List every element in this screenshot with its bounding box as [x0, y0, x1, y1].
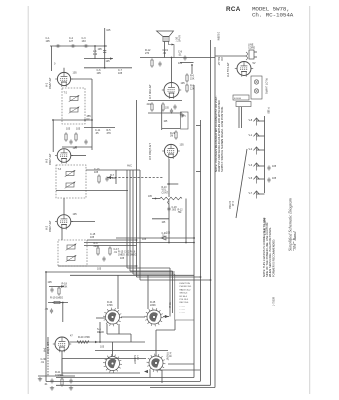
capacitor C-31 — [50, 378, 53, 383]
label C-21 — [162, 233, 168, 238]
junction T-2 right — [84, 119, 86, 121]
label 105 vol low — [162, 222, 167, 224]
wire bottom-left bus — [38, 375, 75, 377]
svg-text:6SL-GT: 6SL-GT — [217, 57, 220, 66]
label pilot lamps — [265, 78, 268, 94]
label V6 plate volts — [70, 335, 73, 338]
wire wafer S-1A feed — [117, 275, 119, 309]
capacitor C-25 — [50, 287, 53, 292]
label C-11 — [95, 129, 101, 135]
svg-text:V-5: V-5 — [249, 177, 253, 180]
svg-text:105: 105 — [48, 281, 53, 284]
label T-2 — [64, 92, 68, 95]
label C-2 127 — [69, 37, 74, 43]
label 6SL-GT — [217, 57, 223, 66]
wire S-1A bracket drop — [130, 334, 132, 342]
capacitor C-14a — [105, 176, 108, 181]
capacitor C-19 — [158, 61, 161, 66]
svg-text:6SK7-GT: 6SK7-GT — [48, 220, 52, 232]
wire right bus 2 — [200, 120, 202, 382]
capacitor C-27 — [267, 165, 270, 170]
svg-text:105: 105 — [120, 257, 125, 260]
junction divider — [62, 302, 64, 304]
svg-text:RADIO 45-2: RADIO 45-2 — [180, 288, 192, 291]
label tube V-4 rect — [226, 62, 230, 77]
label bus values — [118, 251, 137, 257]
inductor T-2 secondary — [69, 107, 80, 114]
wire grid cap lead — [47, 337, 49, 344]
svg-text:.05: .05 — [95, 132, 99, 135]
wire heater tap 3 — [257, 165, 265, 167]
wire B+ bus short — [84, 245, 137, 247]
wire speaker lead 1 — [164, 42, 166, 58]
svg-text:"SW" Band: "SW" Band — [292, 231, 297, 251]
switch wafer S-2B front — [147, 354, 166, 373]
svg-text:V-4 5Y3-GT: V-4 5Y3-GT — [226, 62, 230, 77]
svg-text:470K: 470K — [107, 304, 113, 307]
terminal box function table — [175, 274, 194, 320]
label C-19 — [163, 49, 169, 55]
svg-text:105: 105 — [90, 236, 95, 239]
label R-22 — [170, 133, 176, 138]
wire osc bus — [180, 62, 194, 64]
wire AVC stub — [115, 170, 117, 184]
wire pot left lead — [152, 198, 160, 200]
label PH jack — [182, 115, 186, 118]
wire output screen — [140, 57, 215, 59]
label tube V-1 designator — [45, 82, 49, 87]
wire left B- bus — [45, 272, 47, 382]
wire T-2 tap — [53, 119, 92, 121]
svg-text:9-720A: 9-720A — [228, 201, 231, 209]
wire B+ bus upper — [84, 242, 194, 244]
capacitor C-20 — [173, 104, 176, 109]
wire loop 5 horizontal — [140, 279, 211, 281]
capacitor C-24 — [170, 108, 173, 113]
svg-text:AVC: AVC — [127, 165, 132, 168]
junction det bus — [136, 239, 138, 241]
wire V3 plate lead — [71, 155, 86, 157]
wire W4 pin drop 1 — [149, 370, 151, 378]
svg-text:10MEG: 10MEG — [55, 374, 64, 377]
svg-text:127: 127 — [69, 40, 74, 43]
label J-75039 — [273, 296, 276, 306]
ground output cathode — [180, 113, 184, 117]
svg-text:105: 105 — [76, 128, 81, 131]
svg-text:105: 105 — [97, 268, 102, 271]
ground bottom-left 1 — [38, 377, 42, 381]
label C-17 — [114, 248, 120, 254]
label R-12 pot — [178, 210, 184, 215]
svg-text:105: 105 — [106, 29, 111, 32]
svg-text:.02: .02 — [163, 52, 167, 55]
wire det bottom — [58, 265, 137, 267]
label speaker — [176, 35, 182, 42]
label 105 pot — [148, 196, 153, 198]
label mid label — [142, 238, 147, 241]
label R-24 — [107, 301, 113, 307]
label R-18 — [62, 283, 68, 289]
svg-text:105: 105 — [73, 147, 78, 150]
svg-text:FRONT: FRONT — [166, 352, 169, 361]
transformer T-1 box — [233, 95, 249, 100]
wire V7 plate stub — [171, 58, 173, 83]
svg-text:P-188: P-188 — [267, 107, 270, 114]
label dial lamps — [264, 218, 267, 235]
wire heater tap 4 — [257, 178, 265, 180]
svg-text:105: 105 — [118, 72, 123, 75]
svg-text:1M: 1M — [170, 136, 173, 138]
transformer T-3 dashed can — [56, 165, 86, 198]
svg-text:1MEG .05 2MEG: 1MEG .05 2MEG — [118, 253, 137, 256]
label R-12 — [145, 49, 151, 55]
svg-text:SUPPLY. SWITCH SHOWN IN MAX. C: SUPPLY. SWITCH SHOWN IN MAX. CCW POSITIO… — [220, 106, 224, 172]
wire V3 grid side lead — [52, 120, 54, 152]
wire AVC dashed feed — [107, 177, 163, 179]
label 105 c — [164, 121, 169, 123]
wire loop 3 vertical — [132, 170, 134, 274]
junction b+ 1 — [193, 242, 195, 244]
junction top mid — [104, 67, 106, 69]
label C-3 133 — [82, 37, 87, 43]
label C-28 — [272, 177, 277, 180]
wire bottom loop w4a — [168, 363, 194, 365]
transformer T-4 dashed can — [58, 240, 87, 266]
label function table — [180, 283, 193, 314]
wire bottom loop 2 — [46, 381, 200, 383]
capacitor C-1 — [55, 44, 60, 47]
wire loop 2 horizontal — [130, 270, 173, 272]
label R-13 — [147, 103, 152, 106]
svg-text:220K: 220K — [150, 304, 156, 307]
label T-3 — [58, 168, 62, 171]
switch contact heater V-8 — [254, 118, 260, 126]
junction b+ 3 — [185, 242, 187, 244]
inductor T-3 primary — [65, 170, 76, 177]
junction screen — [171, 57, 173, 59]
junction antenna bus — [94, 45, 96, 47]
svg-text:C-18: C-18 — [172, 207, 178, 209]
label V4 fil volts — [253, 62, 256, 65]
label R-20 — [78, 336, 90, 339]
inductor T-4 secondary — [66, 255, 77, 262]
note switch positions — [214, 96, 224, 172]
label C-24 — [165, 108, 170, 110]
svg-text:V-7 6K6-GT: V-7 6K6-GT — [148, 84, 152, 99]
wire right bus 3 — [210, 40, 212, 385]
svg-text:105: 105 — [272, 165, 277, 168]
terminal box PH-1 — [181, 112, 189, 129]
svg-text:105: 105 — [164, 121, 169, 123]
label 455KC — [87, 115, 92, 121]
junction T-2 right v — [91, 119, 93, 121]
wire bus2 tick a — [196, 125, 201, 127]
wire det link — [116, 237, 140, 239]
svg-text:CONT.: CONT. — [162, 192, 169, 194]
junction loop5 — [210, 279, 212, 281]
wire V5 coupling bottom — [162, 128, 180, 130]
wire deck bus — [95, 350, 168, 352]
wire heater lead 1 — [238, 107, 240, 128]
wire speaker lead 2 — [169, 42, 175, 58]
wire top mid bus — [84, 67, 132, 69]
wire heater tap 2 — [257, 149, 265, 151]
wire V2 plate lead — [71, 221, 95, 223]
label V2 plate volts — [73, 213, 78, 216]
wire arrowhead RF feed — [110, 57, 113, 59]
svg-text:5V: 5V — [253, 62, 256, 65]
junction T-2 left — [52, 119, 54, 121]
wire S-1A left lead — [96, 317, 105, 319]
capacitor C-2 — [70, 44, 75, 47]
svg-text:6SK7-GT: 6SK7-GT — [48, 153, 52, 165]
wire S-1A pin drop 2 — [118, 324, 120, 334]
label tube V-2 type — [48, 220, 52, 232]
switch wafer S-1A rear — [103, 308, 122, 327]
label PH-1 — [169, 302, 172, 308]
potentiometer R-11 — [160, 197, 182, 200]
svg-text:2-188M: 2-188M — [217, 32, 220, 40]
label tube V-3 designator — [45, 158, 49, 163]
wire grid dashed — [47, 344, 49, 376]
junction cathode return — [75, 146, 77, 148]
wire arrowhead AVC feed — [107, 176, 111, 179]
label V7 plate volts — [181, 82, 186, 85]
label RCA logo — [226, 6, 241, 13]
svg-text:105: 105 — [165, 108, 170, 110]
wire bottom loop 4 — [150, 387, 215, 389]
svg-text:REAR: REAR — [97, 331, 104, 334]
label R-4 105 — [76, 128, 81, 131]
label 105 out — [178, 62, 183, 65]
svg-text:CORD: CORD — [248, 46, 255, 49]
svg-text:133: 133 — [82, 40, 87, 43]
wire bottom loop w4b — [156, 369, 200, 371]
label R-7 — [110, 174, 116, 180]
pilot lamp I-1 — [254, 80, 258, 84]
wire loop 4 horizontal — [137, 276, 201, 278]
choke box — [236, 102, 251, 107]
wire loop antenna lead — [104, 28, 106, 68]
svg-text:105: 105 — [180, 144, 185, 147]
wire bus B — [70, 274, 194, 276]
label 105 det — [120, 257, 125, 260]
label C-4 — [98, 48, 103, 51]
wire loop 1 drop — [169, 268, 171, 317]
resistor R-4 — [75, 132, 77, 142]
wire plate line — [69, 341, 145, 343]
svg-text:PH-1: PH-1 — [169, 302, 172, 308]
wire antenna bus — [50, 45, 107, 47]
label C-26 — [45, 308, 49, 311]
wire plate riser — [99, 322, 101, 342]
resistor R-10 — [109, 246, 111, 256]
wire arrow het — [161, 236, 166, 240]
label 105 het — [166, 232, 171, 235]
label deck label — [100, 346, 105, 349]
page border right — [309, 6, 311, 394]
capacitor C-17 — [102, 256, 105, 261]
svg-text:FUNCTION: FUNCTION — [180, 283, 191, 285]
label heater V-5 — [249, 177, 253, 180]
svg-text:6SA7-GT: 6SA7-GT — [48, 77, 52, 89]
wire S-1A bracket — [107, 333, 131, 335]
wire bottom loop 3 — [56, 384, 211, 386]
resistor R-13 — [151, 102, 153, 112]
junction het — [193, 237, 195, 239]
wire V1 top stub — [63, 68, 65, 73]
svg-text:47K: 47K — [107, 132, 112, 135]
label V3 plate volts — [73, 147, 78, 150]
label tube V-6 type — [46, 342, 50, 354]
speaker and output transformer T-5 — [157, 31, 174, 42]
tube V-3 IF amplifier — [55, 149, 73, 164]
junction vol top — [168, 183, 170, 185]
svg-text:.01: .01 — [41, 361, 45, 364]
svg-text:160: 160 — [93, 53, 98, 56]
svg-text:105: 105 — [66, 128, 71, 131]
label line cord — [248, 44, 255, 50]
svg-text:105: 105 — [94, 171, 99, 174]
label C-13 105 — [94, 168, 100, 174]
wire bottom loop 1 — [56, 377, 194, 379]
label tube V-1 type — [48, 77, 52, 89]
pot wiper arrow — [168, 200, 170, 204]
svg-text:15K: 15K — [190, 77, 195, 80]
wire wafer bus — [96, 358, 146, 360]
label R-9 — [94, 242, 100, 248]
svg-text:Ch. RC-1054A: Ch. RC-1054A — [252, 12, 294, 19]
wire arrowhead plate — [95, 341, 98, 343]
svg-text:105: 105 — [100, 346, 105, 349]
label L-14 3-95007 — [133, 355, 139, 365]
label C-1 105 — [46, 37, 51, 43]
wire pot right drop — [185, 199, 187, 243]
junction ant top — [104, 45, 106, 47]
svg-text:105: 105 — [98, 48, 103, 51]
label L-1 — [93, 50, 98, 56]
svg-text:.005: .005 — [172, 210, 177, 212]
wire divider drop — [62, 303, 64, 323]
pilot lamp I-2 — [254, 89, 258, 93]
label 2-188M — [217, 32, 220, 40]
svg-text:270: 270 — [145, 52, 150, 55]
inductor T-2 primary — [69, 95, 80, 102]
svg-text:PHONO 33-1: PHONO 33-1 — [180, 286, 193, 288]
label R-3 105 — [66, 128, 71, 131]
wire pot wiper drop — [168, 205, 170, 243]
label avc values — [127, 165, 132, 168]
wire W3 feed — [112, 342, 114, 356]
tube V-1 converter — [55, 72, 73, 86]
resistor R-22 — [175, 130, 177, 140]
wire wafer S-1B out — [163, 316, 169, 318]
label A-15 FRONT — [166, 352, 172, 361]
resistor R-6a — [186, 73, 188, 83]
switch contact heater V-2 — [254, 147, 260, 155]
wire dial cable — [236, 149, 247, 218]
label heater V-2 — [249, 148, 253, 151]
label 105 mid — [106, 60, 111, 63]
svg-text:- - - - -: - - - - - — [180, 312, 186, 314]
svg-text:R-20 470K: R-20 470K — [78, 336, 90, 339]
label C-6 105 — [97, 69, 102, 75]
wire right bus 1 — [193, 85, 195, 378]
label S-1 REAR — [97, 328, 104, 334]
wire right bus 4 — [214, 47, 216, 388]
label simplified schematic — [288, 198, 298, 251]
svg-text:T-3: T-3 — [58, 168, 62, 171]
inductor T-4 primary — [66, 244, 77, 251]
label resistor ladder — [190, 75, 195, 81]
label R-5 — [107, 129, 112, 135]
svg-text:105: 105 — [166, 232, 171, 235]
capacitor C-32 — [69, 378, 72, 383]
wire arrowhead wafer link — [165, 315, 169, 318]
svg-text:.01: .01 — [114, 251, 118, 254]
wire W4 feed h — [156, 329, 175, 331]
junction left bus — [45, 271, 47, 273]
capacitor C-18 — [167, 206, 170, 211]
capacitor C-3 — [83, 44, 88, 47]
junction bus2 — [200, 276, 202, 278]
svg-text:- - - - -: - - - - - — [180, 305, 186, 307]
inductor T-3 secondary — [65, 182, 76, 189]
junction plate riser — [99, 341, 101, 343]
svg-text:105: 105 — [106, 60, 111, 63]
wire T-3 bottom — [56, 190, 128, 192]
wire V5 coupling — [161, 105, 163, 130]
lamp box — [251, 76, 262, 99]
switch contact heater V-5 — [254, 176, 260, 184]
svg-text:105: 105 — [97, 72, 102, 75]
wire V1 plate lead — [71, 78, 92, 80]
resistor R-7 — [98, 174, 100, 184]
label P-188 — [267, 107, 270, 114]
wire loop 5 vertical — [139, 170, 141, 280]
capacitor C-28 — [267, 177, 270, 182]
wire ant drop — [94, 46, 96, 59]
svg-text:410: 410 — [147, 103, 152, 106]
label tube V-3 type — [48, 153, 52, 165]
wire V1 grid drop — [51, 46, 53, 71]
svg-text:6-95004: 6-95004 — [234, 98, 241, 100]
svg-text:PILOT LAMPS: PILOT LAMPS — [265, 78, 268, 94]
svg-text:105: 105 — [181, 82, 186, 85]
label R-10 VOL — [162, 187, 169, 194]
wire heater tap 5 — [257, 193, 265, 195]
wire heater lead 2 — [241, 107, 243, 128]
svg-text:V-2: V-2 — [249, 148, 253, 151]
label resistor ladder2 — [190, 85, 195, 91]
svg-text:PH: PH — [182, 115, 186, 118]
svg-text:3-95007: 3-95007 — [133, 355, 136, 365]
junction b+ 2 — [168, 242, 170, 244]
svg-text:105: 105 — [73, 72, 78, 75]
wire V5 top link — [167, 183, 178, 185]
svg-text:105: 105 — [272, 177, 277, 180]
page border left — [27, 6, 29, 394]
svg-text:R-22: R-22 — [170, 133, 176, 135]
label V5 plate volts — [180, 144, 185, 147]
label 105 top — [106, 29, 111, 32]
wire V-2 plate drop — [61, 228, 63, 240]
wire heater bus — [264, 116, 266, 193]
svg-text:T-2: T-2 — [64, 92, 68, 95]
svg-text:105: 105 — [162, 222, 167, 224]
transformer T-2 dashed can — [62, 88, 85, 124]
capacitor C-9 — [69, 139, 72, 144]
